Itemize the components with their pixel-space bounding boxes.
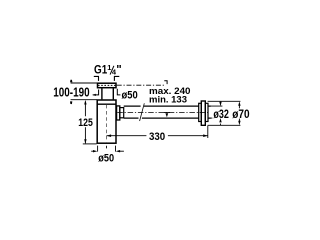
tube break mark [140, 103, 145, 121]
330 arrow left at centerline [107, 134, 112, 137]
o50 bottom extensions [98, 146, 116, 152]
leader dash-dot for max/min [117, 84, 166, 86]
125 extension top [71, 99, 97, 101]
svg-text:ø32: ø32 [213, 108, 229, 121]
trap cup body [97, 100, 116, 143]
tube centerline [117, 112, 207, 114]
reference line for 100-190 (flange top level) [71, 82, 97, 84]
wall-side ring (right) [205, 103, 208, 121]
leader for top o50 [117, 89, 120, 95]
svg-text:ø50: ø50 [122, 90, 138, 102]
elbow leader of 100-190 [93, 90, 99, 95]
o70 dimension arrows [238, 101, 240, 125]
svg-text:ø50: ø50 [98, 153, 114, 165]
tube end stub [208, 106, 211, 118]
vertical centerline of cup [106, 105, 108, 143]
wall-side ring (left) [199, 103, 202, 121]
330 arrow right [203, 134, 208, 137]
o32 dimension arrows [219, 102, 221, 125]
centerline dash over arrow [164, 112, 170, 114]
o70 extension top [208, 100, 241, 102]
wall flange plate (o70) [201, 101, 205, 125]
125 extension bottom [83, 143, 97, 145]
125 arrows [84, 100, 86, 105]
svg-text:ø70: ø70 [232, 108, 249, 121]
outlet collar [120, 108, 124, 118]
o50 bottom arrows [91, 150, 124, 152]
leader tick right under G label [114, 76, 119, 81]
o32 edge extensions [208, 106, 222, 118]
horizontal outlet tube [124, 106, 199, 118]
dimension 330 line [107, 135, 208, 137]
inlet flange (o50 rosette) [98, 83, 117, 88]
small arrow on centerline [165, 113, 168, 117]
leader tick left under G label [94, 76, 99, 81]
outlet nut at cup [117, 106, 120, 120]
svg-text:100-190: 100-190 [53, 85, 89, 99]
330 right extension [207, 126, 209, 138]
svg-text:330: 330 [149, 131, 165, 143]
tailpiece neck [102, 88, 113, 99]
label G1 1/4 inch thread [94, 63, 122, 77]
dimension 125 line [84, 102, 86, 144]
svg-text:125: 125 [78, 117, 93, 129]
o70 extension bottom [208, 124, 241, 126]
hook at end of max/min leader [164, 81, 167, 84]
svg-text:min. 133: min. 133 [149, 94, 187, 104]
